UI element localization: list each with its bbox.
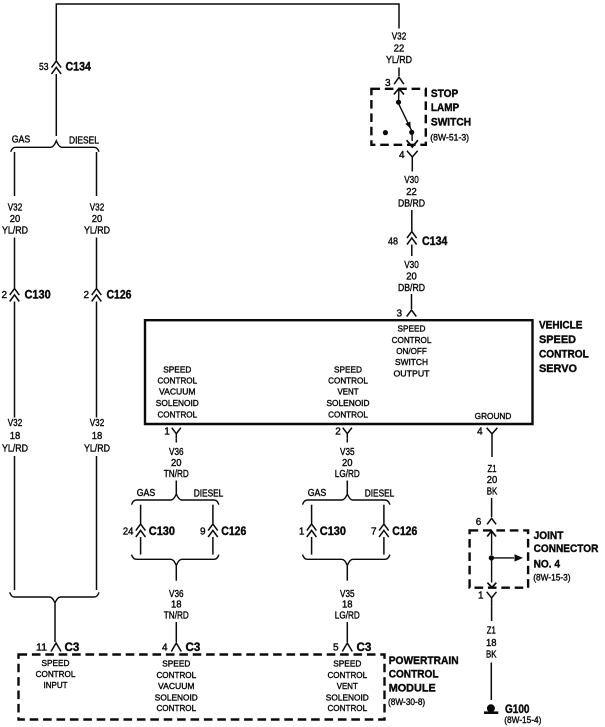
connector joint connector pin 6 — [476, 517, 496, 528]
svg-text:11: 11 — [36, 643, 47, 654]
connector C126 pin 2 — [83, 288, 131, 302]
connector C130 pin 1 — [299, 524, 346, 538]
svg-text:GAS: GAS — [308, 488, 327, 499]
svg-text:DB/RD: DB/RD — [398, 198, 425, 209]
svg-text:C3: C3 — [357, 640, 372, 654]
svg-text:STOP: STOP — [431, 88, 458, 100]
svg-text:BK: BK — [486, 650, 497, 661]
svg-text:BK: BK — [487, 487, 498, 498]
svg-text:53: 53 — [39, 62, 49, 73]
label GROUND — [475, 411, 512, 421]
svg-text:VEHICLE: VEHICLE — [539, 320, 582, 332]
label speed control vacuum solenoid control — [156, 364, 199, 419]
connector C134 pin 48 — [388, 232, 448, 249]
wire to vacuum splice — [175, 481, 177, 494]
label V36 20 TN/RD — [164, 447, 189, 480]
wire vacuum diesel branch — [212, 505, 214, 524]
wire servo pin2 stub — [346, 438, 348, 442]
svg-text:DIESEL: DIESEL — [365, 489, 395, 500]
splice brace vent merge — [303, 555, 390, 566]
label V35 18 LG/RD — [335, 589, 360, 622]
label speed control vacuum solenoid control (PCM) — [155, 659, 198, 714]
svg-text:SPEED: SPEED — [162, 659, 190, 669]
wire servo pin4 stub — [491, 440, 493, 458]
svg-text:V32: V32 — [90, 418, 105, 429]
svg-text:YL/RD: YL/RD — [84, 444, 110, 455]
svg-text:4: 4 — [162, 643, 168, 654]
label Z1 18 BK — [486, 626, 497, 661]
svg-text:VENT: VENT — [338, 387, 359, 397]
svg-text:CONTROL: CONTROL — [328, 375, 368, 385]
label POWERTRAIN CONTROL MODULE — [388, 655, 459, 708]
stop lamp switch internal circuit — [383, 89, 418, 147]
wire to ground G100 — [490, 663, 492, 701]
svg-text:20: 20 — [406, 272, 417, 283]
svg-text:CONTROL: CONTROL — [539, 348, 589, 360]
svg-text:C134: C134 — [66, 60, 92, 74]
svg-text:CONTROL: CONTROL — [328, 409, 368, 419]
svg-text:GAS: GAS — [137, 488, 156, 499]
svg-text:SOLENOID: SOLENOID — [327, 398, 370, 408]
label V32 18 YL/RD gas — [2, 418, 28, 455]
wire to PCM pin 11 — [54, 604, 56, 643]
svg-text:V35: V35 — [340, 447, 355, 458]
wire diesel to C126 — [96, 238, 98, 289]
label V32 18 YL/RD diesel — [84, 418, 110, 455]
wire to vent splice — [346, 481, 348, 494]
svg-text:LG/RD: LG/RD — [335, 469, 360, 480]
joint connector internal bus — [487, 531, 523, 587]
svg-text:LG/RD: LG/RD — [335, 611, 360, 622]
svg-text:C3: C3 — [65, 640, 80, 654]
svg-text:V30: V30 — [404, 175, 419, 186]
wire vacuum gas branch lower — [140, 537, 142, 555]
wire vacuum diesel branch lower — [212, 537, 214, 555]
svg-text:C126: C126 — [107, 288, 132, 302]
wire to stop lamp switch — [398, 68, 400, 77]
wire to PCM pin 4 — [175, 622, 177, 642]
svg-text:VENT: VENT — [337, 681, 358, 691]
svg-text:YL/RD: YL/RD — [2, 225, 28, 236]
svg-text:SPEED: SPEED — [333, 659, 361, 669]
wire vent gas branch — [311, 505, 313, 524]
connector stop lamp switch pin 3 — [385, 77, 404, 89]
svg-text:OUTPUT: OUTPUT — [394, 368, 430, 378]
label Z1 20 BK — [487, 464, 498, 498]
svg-text:DB/RD: DB/RD — [398, 283, 425, 294]
label speed control vent solenoid control (servo) — [327, 364, 370, 419]
label V36 18 TN/RD — [164, 589, 189, 622]
connector C3 pin 11 — [36, 640, 80, 654]
wire V32 20 YL/RD gas upper — [14, 152, 16, 196]
svg-text:NO. 4: NO. 4 — [534, 558, 561, 570]
svg-text:18: 18 — [92, 431, 103, 442]
svg-text:(8W-15-3): (8W-15-3) — [533, 573, 570, 584]
svg-text:7: 7 — [371, 527, 377, 538]
svg-text:GROUND: GROUND — [475, 411, 512, 421]
svg-text:YL/RD: YL/RD — [2, 444, 28, 455]
svg-text:VACUUM: VACUUM — [158, 681, 195, 691]
svg-text:3: 3 — [385, 78, 391, 89]
svg-text:CONTROL: CONTROL — [327, 670, 367, 680]
ground G100 — [484, 704, 541, 726]
wire vacuum gas branch — [140, 505, 142, 524]
label speed control vent solenoid control (PCM) — [326, 659, 369, 714]
svg-text:20: 20 — [487, 475, 498, 486]
svg-text:6: 6 — [476, 517, 482, 528]
wire to servo pin 3 — [411, 294, 413, 309]
wire diesel lower — [96, 456, 98, 590]
svg-text:9: 9 — [200, 527, 206, 538]
svg-text:Z1: Z1 — [488, 464, 497, 475]
svg-text:SPEED: SPEED — [163, 364, 191, 374]
svg-text:YL/RD: YL/RD — [84, 225, 110, 236]
wire W2 below C134 — [55, 74, 57, 136]
svg-text:2: 2 — [1, 290, 7, 301]
wire servo pin1 stub — [175, 438, 177, 442]
svg-text:SOLENOID: SOLENOID — [155, 692, 198, 702]
connector C130 pin 2 — [1, 288, 51, 302]
label V32 20 YL/RD diesel — [84, 202, 110, 236]
svg-text:20: 20 — [342, 458, 353, 469]
svg-text:5: 5 — [333, 643, 339, 654]
svg-text:22: 22 — [406, 187, 417, 198]
svg-text:CONTROL: CONTROL — [157, 409, 197, 419]
label VEHICLE SPEED CONTROL SERVO — [539, 320, 589, 375]
svg-text:(8W-51-3): (8W-51-3) — [430, 132, 469, 143]
svg-text:1: 1 — [299, 527, 305, 538]
svg-text:TN/RD: TN/RD — [164, 611, 189, 622]
svg-text:INPUT: INPUT — [44, 680, 68, 690]
svg-text:MODULE: MODULE — [389, 683, 436, 695]
svg-text:C134: C134 — [422, 234, 448, 248]
svg-text:2: 2 — [335, 427, 341, 438]
label V32 20 YL/RD gas — [2, 202, 28, 236]
wire vent merged — [346, 566, 348, 581]
svg-text:20: 20 — [92, 214, 103, 225]
label speed control on/off switch output — [392, 324, 432, 379]
svg-text:SOLENOID: SOLENOID — [156, 398, 199, 408]
svg-text:C3: C3 — [186, 640, 201, 654]
label V30 20 DB/RD — [398, 260, 425, 294]
svg-text:GAS: GAS — [12, 134, 31, 145]
svg-text:V32: V32 — [8, 418, 23, 429]
svg-text:SWITCH: SWITCH — [395, 357, 428, 367]
wire diesel below C126 — [96, 302, 98, 418]
svg-text:18: 18 — [171, 600, 182, 611]
wire below joint connector — [491, 606, 493, 621]
connector joint connector pin 1 — [478, 591, 497, 607]
svg-text:SPEED: SPEED — [539, 334, 576, 346]
wire gas lower — [14, 456, 16, 590]
splice brace vacuum GAS/DIESEL — [132, 488, 224, 505]
svg-text:V32: V32 — [8, 202, 23, 213]
wire to PCM pin 5 — [346, 622, 348, 642]
svg-text:C130: C130 — [25, 288, 51, 302]
svg-text:CONTROL: CONTROL — [392, 335, 432, 345]
wire V32 20 YL/RD diesel upper — [96, 152, 98, 196]
vehicle speed control servo box — [145, 320, 533, 424]
svg-text:V36: V36 — [169, 589, 184, 600]
svg-text:4: 4 — [477, 427, 483, 438]
label STOP LAMP SWITCH — [430, 88, 471, 143]
wire below C134 pin 48 — [411, 245, 413, 257]
svg-text:DIESEL: DIESEL — [194, 489, 224, 500]
label V32 22 YL/RD — [386, 32, 412, 66]
connector C3 pin 4 — [162, 640, 201, 654]
connector C3 pin 5 — [333, 640, 372, 654]
powertrain control module box — [19, 655, 385, 720]
svg-text:SPEED: SPEED — [42, 658, 70, 668]
connector servo pin 2 — [335, 427, 352, 439]
svg-text:ON/OFF: ON/OFF — [396, 346, 427, 356]
svg-text:CONTROL: CONTROL — [156, 670, 196, 680]
wire to C134 pin 48 — [411, 210, 413, 231]
wire to joint connector pin 6 — [491, 498, 493, 517]
svg-text:CONTROL: CONTROL — [389, 669, 439, 681]
svg-text:C126: C126 — [221, 524, 246, 538]
svg-text:C130: C130 — [149, 524, 175, 538]
svg-text:C130: C130 — [320, 524, 346, 538]
connector C126 pin 9 — [200, 524, 247, 538]
label V30 22 DB/RD — [398, 175, 425, 209]
svg-text:(8W-15-4): (8W-15-4) — [504, 715, 541, 726]
svg-text:SPEED: SPEED — [398, 324, 426, 334]
connector servo pin 3 — [396, 309, 416, 320]
wire vent diesel branch — [383, 505, 385, 524]
connector stop lamp switch pin 4 — [399, 150, 418, 164]
splice brace merge bottom left — [10, 592, 99, 603]
svg-text:4: 4 — [399, 150, 405, 161]
svg-text:18: 18 — [486, 638, 497, 649]
connector C126 pin 7 — [371, 524, 418, 538]
wire W1 from C134 splice to stop lamp switch feed — [56, 4, 399, 61]
svg-text:CONTROL: CONTROL — [327, 703, 367, 713]
svg-text:Z1: Z1 — [487, 626, 496, 637]
svg-text:CONNECTOR: CONNECTOR — [534, 543, 599, 555]
svg-text:LAMP: LAMP — [431, 102, 459, 114]
svg-text:TN/RD: TN/RD — [164, 469, 189, 480]
svg-text:3: 3 — [396, 309, 402, 320]
splice brace vent GAS/DIESEL — [303, 488, 395, 505]
label speed control input — [36, 658, 76, 690]
svg-text:24: 24 — [123, 527, 134, 538]
svg-text:(8W-30-8): (8W-30-8) — [388, 697, 425, 708]
svg-text:CONTROL: CONTROL — [156, 703, 196, 713]
label V35 20 LG/RD — [335, 447, 360, 480]
svg-text:C126: C126 — [392, 524, 417, 538]
svg-text:20: 20 — [10, 214, 21, 225]
svg-text:CONTROL: CONTROL — [36, 669, 76, 679]
splice brace vacuum merge — [132, 555, 219, 566]
wire below stop lamp switch pin 4 — [411, 164, 413, 172]
svg-text:YL/RD: YL/RD — [386, 55, 412, 66]
label JOINT CONNECTOR NO. 4 — [533, 530, 598, 584]
svg-text:POWERTRAIN: POWERTRAIN — [389, 655, 459, 667]
svg-text:V36: V36 — [169, 447, 184, 458]
svg-text:20: 20 — [171, 458, 182, 469]
wire vent diesel branch lower — [383, 537, 385, 555]
wire gas below C130 — [14, 302, 16, 418]
wire gas to C130 — [14, 238, 16, 289]
svg-text:SWITCH: SWITCH — [431, 117, 471, 129]
svg-text:48: 48 — [388, 237, 398, 248]
svg-text:V32: V32 — [392, 32, 407, 43]
svg-text:1: 1 — [164, 427, 170, 438]
svg-text:2: 2 — [83, 290, 89, 301]
svg-text:SERVO: SERVO — [539, 363, 577, 375]
svg-text:18: 18 — [10, 431, 21, 442]
svg-text:SPEED: SPEED — [334, 364, 362, 374]
svg-text:SOLENOID: SOLENOID — [326, 692, 369, 702]
svg-text:CONTROL: CONTROL — [157, 375, 197, 385]
connector servo pin 4 — [477, 427, 497, 440]
svg-text:V35: V35 — [340, 589, 355, 600]
svg-text:V30: V30 — [404, 260, 419, 271]
svg-text:22: 22 — [394, 44, 405, 55]
svg-text:18: 18 — [342, 600, 353, 611]
svg-text:JOINT: JOINT — [534, 530, 564, 542]
wire vacuum merged — [175, 566, 177, 581]
svg-text:V32: V32 — [90, 202, 105, 213]
connector C130 pin 24 — [123, 524, 175, 538]
splice brace GAS/DIESEL top — [11, 134, 100, 152]
wire vent gas branch lower — [311, 537, 313, 555]
connector servo pin 1 — [164, 427, 181, 439]
joint connector no. 4 box — [470, 530, 528, 587]
stop lamp switch box — [371, 89, 425, 145]
connector C134 pin 53 — [39, 60, 91, 75]
svg-text:VACUUM: VACUUM — [159, 387, 196, 397]
svg-text:DIESEL: DIESEL — [69, 136, 99, 147]
svg-text:1: 1 — [478, 591, 484, 602]
